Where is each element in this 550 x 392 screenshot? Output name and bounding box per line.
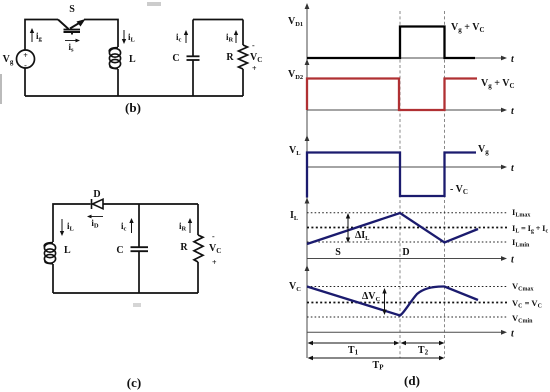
svg-text:+: +	[212, 258, 217, 267]
svg-text:(c): (c)	[127, 375, 141, 390]
dotted level VC average	[307, 302, 509, 304]
svg-text:+: +	[252, 64, 257, 73]
resistor R (b)	[239, 45, 248, 69]
current arrow ig	[30, 28, 34, 42]
wire b CR-loop top	[193, 19, 243, 21]
wire b C bottom stub	[192, 61, 194, 97]
svg-text:-: -	[252, 41, 255, 50]
svg-text:D: D	[402, 247, 409, 258]
svg-text:L: L	[64, 245, 71, 256]
TP measurement arrow	[308, 356, 445, 360]
svg-text:R: R	[180, 242, 188, 253]
t axis wf5	[307, 331, 503, 333]
T1 measurement arrow	[308, 341, 400, 345]
T2 measurement arrow	[401, 341, 445, 345]
wire b R bottom stub	[242, 69, 244, 96]
wire c R top stub	[197, 204, 199, 235]
waveform VD2	[307, 79, 477, 111]
wire b C top stub	[192, 20, 194, 57]
svg-text:-: -	[212, 232, 215, 241]
waveform VC	[307, 286, 478, 315]
svg-text:S: S	[69, 4, 75, 15]
capacitor C (c)	[131, 247, 149, 251]
stray scan smudge below circuit c	[133, 303, 141, 307]
dashed timing line 1	[399, 11, 401, 358]
transistor switch S	[58, 20, 83, 35]
svg-text:S: S	[335, 247, 341, 258]
svg-text:+: +	[23, 51, 28, 60]
wire c bottom rail	[53, 292, 198, 294]
svg-text:C: C	[172, 53, 179, 64]
voltage source Vg	[17, 50, 35, 68]
wire b top-left	[25, 20, 58, 51]
dotted level ILmax	[307, 212, 508, 214]
wire b R top stub	[242, 20, 244, 46]
svg-text:R: R	[226, 52, 234, 63]
t axis wf1	[307, 57, 503, 59]
inductor L (c)	[44, 243, 55, 264]
wire c R bottom stub	[197, 262, 199, 293]
svg-text:C: C	[116, 245, 123, 256]
dotted level IL average	[307, 227, 509, 229]
current arrow iD	[87, 215, 103, 219]
wire b left-bottom	[24, 68, 26, 96]
svg-text:L: L	[129, 54, 136, 65]
dashed timing line 2	[444, 11, 446, 358]
current arrow iR (c)	[188, 218, 192, 233]
wire b top-right	[84, 20, 118, 48]
waveform VL	[307, 153, 476, 198]
current arrow is	[65, 39, 80, 43]
current arrow iL (c)	[60, 219, 64, 236]
svg-text:(b): (b)	[125, 100, 141, 115]
waveform IL	[307, 213, 478, 244]
capacitor C (b)	[187, 56, 200, 60]
dotted level VCmax	[307, 286, 508, 288]
wire b bottom rail	[25, 95, 243, 97]
current arrow ic (b)	[184, 30, 188, 43]
wire c left branch	[53, 204, 91, 242]
stray scan mark left edge	[0, 74, 2, 104]
current arrow ic (c)	[129, 218, 133, 233]
t axis wf2	[307, 109, 503, 111]
vertical axis line	[306, 6, 308, 358]
wire c C bottom stub	[138, 252, 140, 294]
axis arrowheads	[305, 3, 310, 271]
t axis wf4	[307, 258, 503, 260]
inductor L (b)	[109, 48, 120, 69]
svg-text:-: -	[24, 61, 27, 70]
current arrow iR (b)	[234, 30, 238, 43]
svg-text:D: D	[93, 189, 100, 200]
svg-text:(d): (d)	[404, 373, 420, 388]
resistor R (c)	[194, 235, 203, 262]
wire c C top stub	[138, 204, 140, 247]
delta VC arrow	[382, 288, 386, 315]
delta IL arrow	[346, 213, 350, 243]
wire c left-bottom	[52, 264, 54, 293]
svg-text:VC = VC: VC = VC	[512, 298, 542, 310]
waveform VD1	[307, 27, 475, 59]
diode D	[92, 199, 104, 209]
wire c top right of diode	[104, 203, 199, 205]
dotted level VCmin	[307, 316, 508, 318]
current arrow iL (b)	[122, 30, 126, 44]
wire b inductor-bottom	[117, 69, 119, 96]
dotted level ILmin	[307, 241, 508, 243]
stray scan smudge top center	[147, 2, 161, 6]
t axis wf3	[307, 166, 503, 168]
